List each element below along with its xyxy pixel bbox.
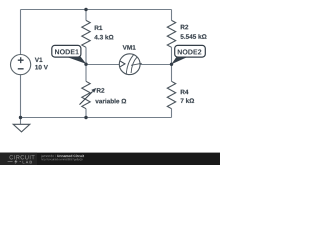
voltage source V1 [11, 55, 31, 75]
logo CircuitLab [8, 155, 35, 164]
label R2 5.545 kOhm [181, 25, 207, 39]
wire bottom rail [21, 117, 172, 119]
wire R2 bottom lead [171, 47, 173, 64]
wire VR2 bottom lead [85, 109, 87, 118]
junction bottom of VR2 [84, 116, 87, 119]
label VM1 [123, 45, 136, 49]
watermark bar logo backdrop [0, 153, 37, 165]
resistor R4 [167, 81, 175, 108]
node NODE1 flag [52, 45, 86, 64]
variable resistor R2 (rheostat) [80, 81, 97, 108]
resistor R1 [82, 20, 90, 47]
wire R1 top lead [85, 10, 87, 21]
junction bottom left [19, 116, 22, 119]
node NODE2 flag [171, 45, 205, 64]
watermark bar [0, 153, 220, 165]
junction top of R1 [84, 8, 87, 11]
wire VR2 top lead [85, 65, 87, 82]
label V1 10 V [35, 58, 48, 70]
wire R4 top lead [171, 65, 173, 82]
label R4 7 kOhm [181, 90, 195, 103]
credit text [41, 155, 84, 161]
wire left rail lower [20, 75, 22, 118]
wire R2 top lead [171, 10, 173, 21]
wire mid right VM1 to NODE2 [140, 64, 172, 66]
wire left rail upper [20, 10, 22, 55]
ground [13, 124, 30, 132]
wire top rail [21, 9, 172, 11]
junction NODE2 [170, 63, 173, 66]
label R1 4.3 kOhm [94, 26, 113, 40]
wire mid left NODE1 to VM1 [86, 64, 119, 66]
label R2 variable Ohm [95, 88, 126, 103]
resistor R2 [167, 20, 175, 47]
wire ground stub [20, 118, 22, 125]
voltmeter VM1 [119, 54, 142, 75]
wire R1 bottom lead [85, 47, 87, 64]
junction NODE1 [84, 62, 87, 65]
wire R4 bottom lead [171, 109, 173, 118]
